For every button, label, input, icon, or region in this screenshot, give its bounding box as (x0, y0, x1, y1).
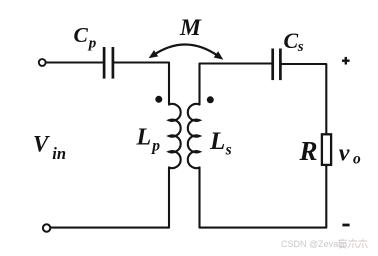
svg-text:in: in (52, 144, 66, 163)
svg-text:C: C (284, 28, 299, 53)
plus sign (342, 57, 350, 65)
svg-text:L: L (209, 128, 225, 155)
svg-text:v: v (339, 140, 350, 166)
mutual coupling arrow M (153, 44, 219, 56)
svg-text:p: p (87, 36, 97, 52)
label Lp (136, 125, 161, 155)
capacitor Cs (273, 49, 281, 81)
svg-text:s: s (297, 39, 304, 55)
svg-text:L: L (136, 125, 152, 151)
svg-text:CSDN @Zevalin: CSDN @Zevalin (281, 239, 347, 249)
terminal top-left (39, 59, 46, 66)
wire top-left from input terminal to Cp (46, 61, 103, 63)
wire secondary top corner to Cs (200, 64, 272, 105)
svg-text:V: V (33, 132, 50, 157)
label Ls (209, 128, 232, 159)
svg-text:o: o (353, 150, 361, 167)
wire Cs to load branch (282, 64, 327, 134)
svg-text:M: M (179, 15, 202, 41)
inductor Lp primary coil (169, 104, 181, 168)
svg-text:R: R (299, 136, 318, 166)
minus sign (342, 224, 349, 227)
label Cs (284, 28, 304, 55)
capacitor Cp (104, 47, 113, 79)
watermark CJK glyph blocks (339, 239, 368, 249)
label Vin (33, 132, 66, 164)
terminal bottom-left (43, 224, 50, 231)
svg-text:p: p (150, 138, 160, 155)
label vo (339, 140, 361, 167)
inductor Ls secondary coil (188, 104, 200, 168)
dot primary polarity (155, 96, 162, 103)
svg-text:C: C (74, 23, 89, 47)
label Cp (74, 23, 97, 52)
svg-text:s: s (225, 142, 232, 159)
dot secondary polarity (207, 96, 214, 103)
wire resistor to bottom rail (200, 165, 327, 227)
wire Cp to primary top corner (114, 63, 169, 105)
resistor R (322, 134, 331, 165)
wire primary bottom to terminal (51, 168, 169, 228)
